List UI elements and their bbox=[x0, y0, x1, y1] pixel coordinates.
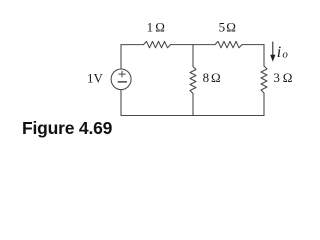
voltage source V1 1V circle bbox=[111, 69, 131, 90]
resistor 8Ω bbox=[190, 67, 196, 94]
wire top-right segment bbox=[242, 44, 264, 46]
wire top-middle segment bbox=[171, 44, 216, 46]
wire left rail upper bbox=[120, 45, 122, 69]
voltage source plus sign bbox=[119, 71, 126, 77]
svg-text:5: 5 bbox=[219, 20, 226, 35]
caption Figure 4.69 bbox=[22, 118, 112, 139]
wire right rail upper bbox=[263, 45, 265, 66]
current arrow i_o head bbox=[270, 55, 275, 62]
wire left rail lower bbox=[120, 90, 122, 116]
svg-text:Ω: Ω bbox=[226, 20, 236, 35]
wire middle rail lower bbox=[192, 94, 194, 116]
svg-text:Ω: Ω bbox=[283, 70, 293, 85]
svg-text:8: 8 bbox=[203, 70, 210, 85]
svg-text:1: 1 bbox=[147, 20, 154, 35]
svg-text:3: 3 bbox=[273, 70, 280, 85]
resistor 5Ω bbox=[215, 41, 242, 47]
svg-text:o: o bbox=[282, 49, 288, 61]
current arrow i_o shaft bbox=[272, 42, 274, 56]
wire bottom bbox=[121, 115, 264, 117]
svg-text:i: i bbox=[277, 44, 281, 61]
svg-text:Ω: Ω bbox=[211, 70, 221, 85]
svg-text:V: V bbox=[94, 70, 104, 85]
svg-text:Ω: Ω bbox=[155, 20, 165, 35]
resistor 1Ω (R between node A and node B) bbox=[144, 41, 171, 47]
resistor 3Ω bbox=[261, 66, 267, 93]
wire right rail lower bbox=[263, 93, 265, 116]
voltage source minus sign bbox=[118, 81, 126, 83]
wire middle rail upper bbox=[192, 45, 194, 67]
wire top-left segment bbox=[121, 44, 144, 46]
